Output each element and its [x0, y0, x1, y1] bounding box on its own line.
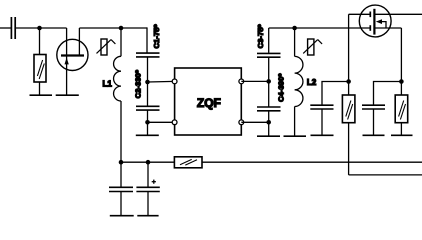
transistor VT1 drain lead	[78, 28, 80, 55]
transistor VT1 gate lead with arrow	[66, 28, 68, 95]
node F junction dot	[266, 120, 271, 125]
capacitor C6	[362, 105, 385, 109]
inductor L1	[114, 56, 121, 101]
capacitor C8 (electrolytic)	[136, 187, 159, 191]
svg-text:C4-390*: C4-390*	[277, 74, 286, 102]
node E junction dot	[266, 79, 271, 84]
wire C1 to node C	[147, 58, 149, 107]
svg-text:C2-330*: C2-330*	[133, 70, 142, 98]
ground (under C2)	[136, 134, 159, 136]
ground (under C4)	[257, 135, 280, 137]
ground (under C5)	[311, 134, 334, 136]
plus sign C8	[152, 180, 156, 184]
resistor R1 (box with diagonal strokes)	[34, 55, 46, 83]
pin 4 circle	[239, 120, 244, 125]
wire C4 bottom to node F	[268, 111, 270, 136]
trimmer core (L2 adjustable)	[303, 39, 322, 55]
resistor R4 (box with diagonal strokes, horizontal)	[174, 157, 202, 168]
wire R2 bottom to rail	[348, 123, 350, 175]
capacitor C4	[257, 107, 281, 111]
svg-text:ZQF: ZQF	[197, 96, 221, 110]
ground (under C7)	[110, 215, 134, 217]
wire bottom rail right	[202, 161, 422, 163]
wire R3 to ground	[400, 123, 402, 136]
wire ZQF pin 3 to node E	[241, 80, 268, 82]
wire VT1 drain to tank	[79, 27, 147, 29]
svg-text:L2: L2	[307, 78, 317, 87]
svg-text:C3-75*: C3-75*	[256, 24, 265, 48]
wire node K to C8	[147, 162, 149, 187]
transistor VT2 substrate arrow	[376, 19, 382, 24]
transistor VT1 channel bar	[61, 54, 84, 56]
wire C2 bottom to node D	[147, 111, 149, 136]
transistor VT2 (MOSFET, circle)	[359, 5, 391, 37]
crystal filter ZQF	[175, 68, 242, 135]
capacitor C1	[136, 53, 160, 57]
ground (under C6)	[363, 134, 385, 136]
wire node D to ZQF pin 2	[148, 121, 175, 123]
node H junction dot	[346, 79, 351, 84]
wire input to gate VT1	[16, 27, 67, 29]
transistor VT1 (JFET, circle)	[57, 39, 88, 70]
node G junction dot (L2 top)	[292, 26, 297, 31]
wire C3 to node E	[268, 58, 270, 107]
ground (under C8)	[137, 215, 158, 217]
node B junction dot (L1 top)	[119, 26, 124, 31]
pin 2 circle	[172, 120, 177, 125]
wire node A down to R1	[39, 28, 41, 55]
wire C6 to ground	[373, 109, 375, 135]
capacitor C2	[136, 106, 160, 110]
ground (under VT1)	[56, 94, 79, 96]
wire VT2 drain output	[374, 13, 422, 15]
inductor L2	[295, 56, 303, 106]
wire top rail right	[269, 27, 371, 29]
pin 1 circle	[172, 79, 177, 84]
transistor VT2 gate 1 lead and tick	[349, 13, 371, 15]
capacitor C7	[109, 187, 133, 191]
capacitor C5	[310, 105, 333, 109]
wire R1 to ground	[39, 82, 41, 95]
wire L2 top	[294, 28, 296, 56]
ground (under R3)	[391, 134, 413, 136]
node J junction dot	[119, 160, 124, 165]
wire node C to ZQF pin 1	[148, 80, 175, 83]
wire ZQF pin 4 to node F	[241, 121, 268, 123]
transistor VT2 source lead	[374, 27, 401, 29]
wire VT2 source down	[400, 28, 402, 95]
pin 3 circle	[239, 79, 244, 84]
wire L2 bottom to ground	[294, 107, 296, 137]
svg-text:L1: L1	[103, 80, 113, 89]
ground (under L2)	[284, 135, 307, 137]
ground (under R1)	[30, 94, 53, 96]
capacitor C3	[257, 53, 281, 57]
transistor VT2 gate 2 tick	[369, 25, 371, 31]
wire input left	[0, 27, 11, 29]
wire C5 to ground	[321, 109, 323, 135]
wire L1 bottom down	[120, 101, 122, 187]
svg-text:C1-75*: C1-75*	[152, 25, 161, 49]
resistor R2 (box with diagonal strokes)	[342, 95, 355, 123]
wire bottom rail left	[121, 161, 174, 163]
node K junction dot	[146, 160, 151, 165]
wire R2 rail to right edge	[349, 174, 422, 176]
wire corner to C1	[146, 27, 148, 52]
wire gate1 bias vertical	[348, 14, 350, 95]
resistor R3 (box with diagonal strokes)	[395, 95, 408, 123]
wire corner to C3	[268, 28, 270, 53]
transistor VT2 channel bar	[373, 9, 375, 35]
wire node H to C5	[322, 82, 349, 105]
capacitor Cin (input coupling)	[11, 17, 15, 39]
node C junction dot	[145, 80, 150, 85]
node A junction dot	[37, 26, 42, 31]
node I junction dot	[399, 79, 404, 84]
wire C7 to ground	[120, 192, 122, 216]
wire L1 top	[120, 28, 122, 56]
wire node I to C6	[374, 82, 402, 105]
node D junction dot	[145, 120, 150, 125]
wire C8 to ground	[147, 192, 149, 216]
trimmer core (L1 adjustable)	[97, 39, 116, 55]
